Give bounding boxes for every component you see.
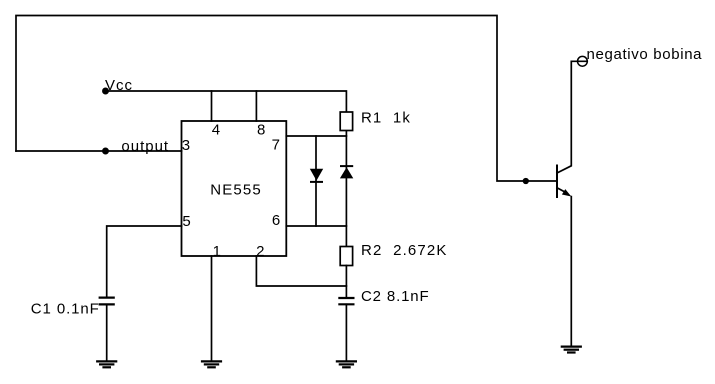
wire R1-R2 vertical <box>345 131 347 247</box>
wire pin 8 to Vcc <box>255 91 257 121</box>
svg-text:8: 8 <box>257 122 265 139</box>
wire pin 2 to C2 <box>256 256 346 286</box>
svg-text:2: 2 <box>256 243 264 260</box>
svg-text:R1 1k: R1 1k <box>361 109 411 126</box>
wire C1 to ground <box>106 304 108 361</box>
wire pin 5 to C1 <box>107 226 182 297</box>
svg-text:negativo bobina: negativo bobina <box>587 46 703 63</box>
svg-text:C2 8.1nF: C2 8.1nF <box>361 288 430 305</box>
svg-text:7: 7 <box>272 136 280 153</box>
node Vcc <box>103 88 108 93</box>
svg-text:4: 4 <box>212 122 220 139</box>
ground C1 <box>97 361 116 367</box>
svg-text:NE555: NE555 <box>210 182 262 199</box>
transistor Q1 collector <box>557 61 587 173</box>
wire pin 7 <box>286 135 346 137</box>
svg-text:Vcc: Vcc <box>105 77 133 94</box>
svg-text:C1 0.1nF: C1 0.1nF <box>31 301 100 318</box>
terminal negativo bobina <box>578 56 588 66</box>
ground emitter <box>562 347 581 353</box>
svg-text:5: 5 <box>182 213 190 230</box>
svg-text:6: 6 <box>272 212 280 229</box>
transistor Q1 base bar <box>556 166 558 198</box>
op-amp U1 NE555 body <box>182 121 287 256</box>
capacitor C2 <box>339 298 353 304</box>
wire pin 4 to Vcc <box>211 91 213 121</box>
svg-text:output: output <box>121 138 169 155</box>
wire R2 to C2 <box>345 266 347 298</box>
wire output loop to transistor base <box>16 16 556 182</box>
wire output line <box>16 150 182 152</box>
resistor R2 <box>340 247 352 266</box>
node output <box>103 148 108 153</box>
node base junction <box>524 179 529 184</box>
wire diode branch D1 <box>315 136 317 226</box>
transistor Q1 emitter arrow <box>562 189 571 196</box>
capacitor C1 <box>100 298 114 305</box>
transistor Q1 emitter <box>557 188 567 193</box>
diode D2 up <box>340 167 353 178</box>
svg-text:R2 2.672K: R2 2.672K <box>361 242 448 259</box>
wire pin 6 <box>286 225 346 227</box>
svg-text:3: 3 <box>182 137 190 154</box>
diode D1 down <box>310 169 323 181</box>
resistor R1 <box>340 112 352 131</box>
wire C2 to ground <box>345 304 347 361</box>
svg-text:1: 1 <box>213 243 221 260</box>
wire Vcc rail <box>106 91 347 112</box>
ground pin1 <box>202 361 221 367</box>
ground C2 <box>337 361 356 367</box>
wire pin 1 to ground <box>211 256 213 361</box>
wire emitter to ground <box>570 197 572 347</box>
